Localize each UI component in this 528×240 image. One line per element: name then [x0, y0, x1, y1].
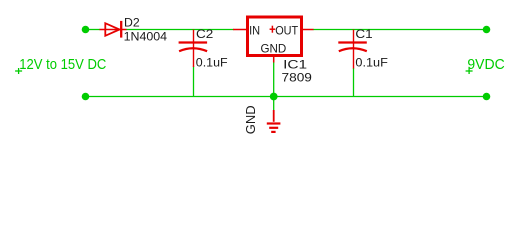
svg-text:GND: GND: [243, 105, 258, 134]
wire IC GND pin to ground rail: [273, 62, 275, 97]
IC1 OUT pin wire: [303, 29, 314, 31]
diode D2 pin wire: [100, 29, 127, 31]
node bottom-right junction dot: [483, 93, 491, 101]
node output junction dot: [483, 26, 491, 34]
capacitor C2 upper lead: [193, 30, 195, 68]
ground bar 2: [269, 127, 278, 129]
IC1 GND pin wire: [273, 57, 275, 63]
wire C2 lower lead to ground rail: [193, 67, 195, 97]
svg-text:1N4004: 1N4004: [124, 30, 168, 44]
diode D2 triangle: [105, 23, 119, 36]
capacitor C1 top plate: [338, 41, 367, 43]
svg-text:IN: IN: [249, 24, 260, 38]
svg-text:D2: D2: [124, 15, 140, 29]
capacitor C1 bottom curved plate: [339, 48, 367, 51]
polarity + marker: [270, 26, 276, 33]
svg-text:12V to 15V DC: 12V to 15V DC: [19, 57, 106, 73]
wire ground rail to GND symbol: [273, 97, 275, 111]
wire C1 lower lead to ground rail: [353, 68, 355, 97]
svg-text:IC1: IC1: [283, 57, 307, 71]
svg-text:0.1uF: 0.1uF: [355, 55, 388, 69]
capacitor C2 bottom curved plate: [179, 48, 207, 51]
capacitor C2 top plate: [179, 41, 208, 43]
text origin cross (output label): [466, 68, 473, 74]
node ground junction dot: [270, 93, 278, 101]
capacitor C1 upper lead: [353, 30, 355, 69]
ground symbol stub: [273, 110, 275, 122]
wire top-left segment: [86, 29, 101, 31]
text origin cross (input label): [15, 68, 22, 74]
svg-text:OUT: OUT: [275, 24, 298, 38]
node bottom-left junction dot: [82, 93, 90, 101]
svg-text:9VDC: 9VDC: [467, 57, 504, 73]
svg-text:7809: 7809: [282, 70, 313, 84]
wire bottom ground rail: [86, 96, 487, 98]
node input junction dot: [82, 26, 90, 34]
svg-text:GND: GND: [261, 41, 287, 55]
svg-text:C2: C2: [196, 27, 213, 41]
svg-text:C1: C1: [355, 27, 372, 41]
wire diode to IC IN: [126, 29, 234, 31]
wire IC OUT to output: [313, 29, 487, 31]
svg-text:0.1uF: 0.1uF: [196, 55, 228, 69]
diode D2 cathode bar: [120, 21, 122, 38]
ground bar 1: [267, 122, 281, 124]
IC1 IN pin wire: [233, 29, 246, 31]
regulator IC1 box: [248, 17, 302, 56]
ground bar 3: [271, 131, 275, 133]
